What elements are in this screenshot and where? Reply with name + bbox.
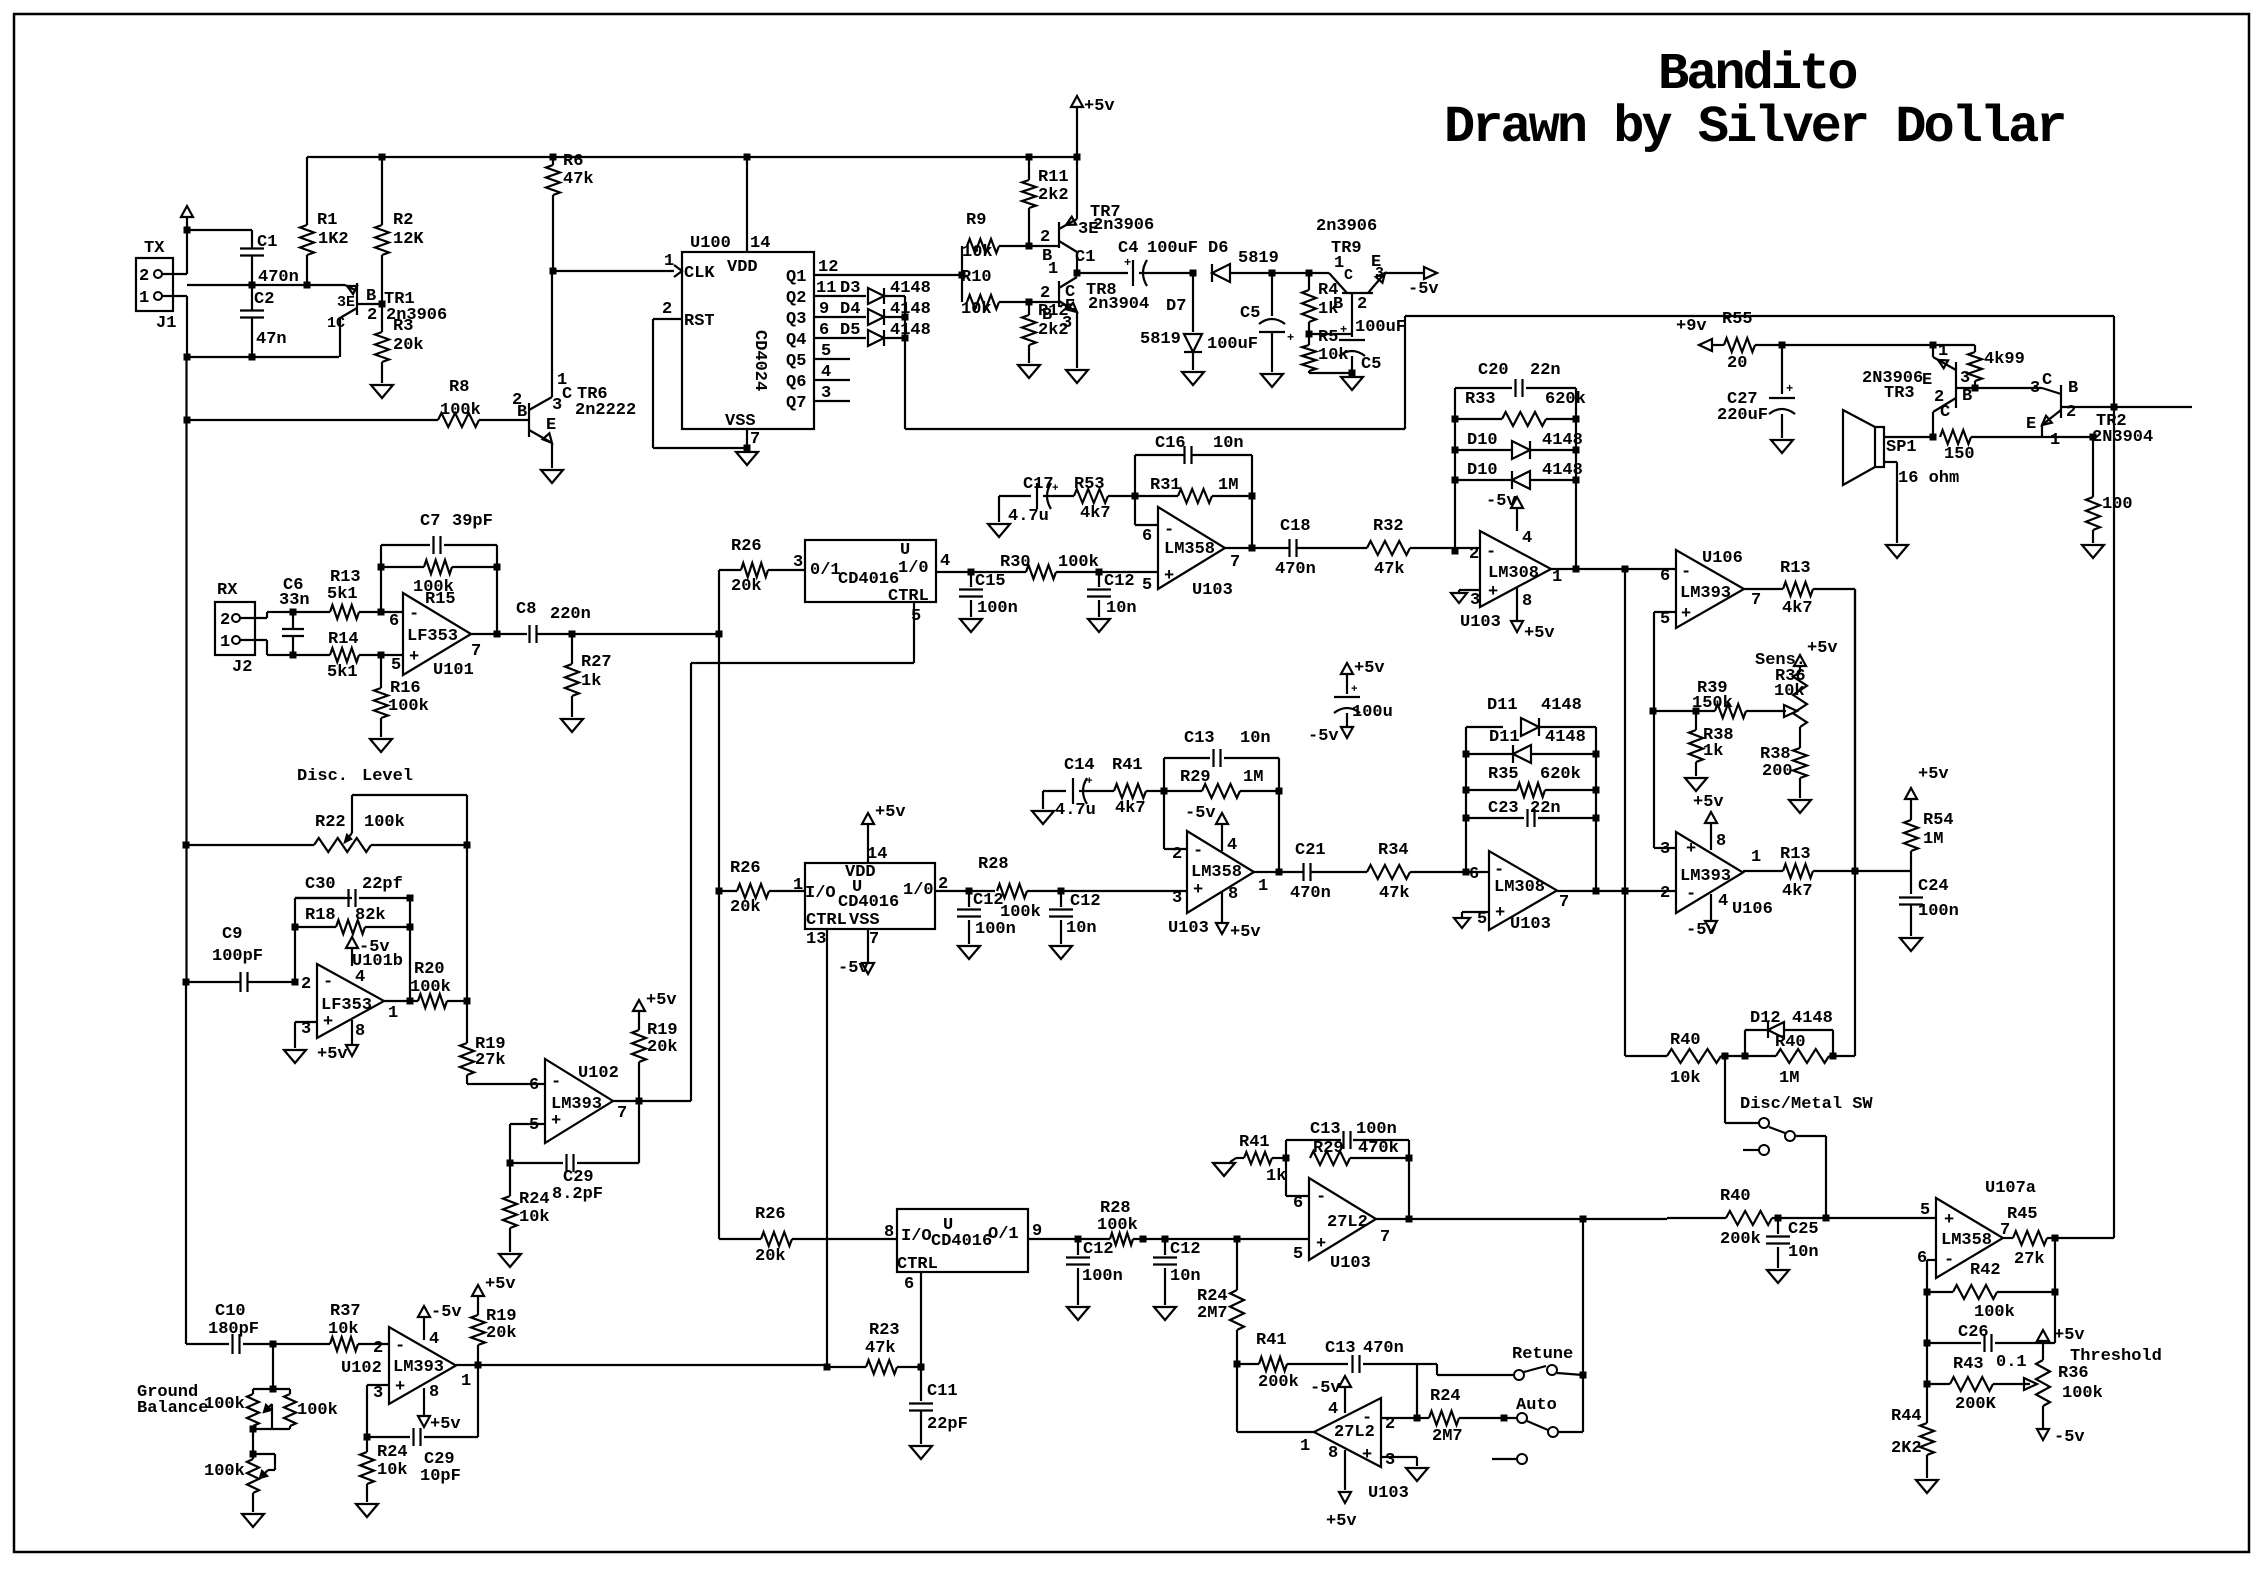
svg-text:200k: 200k — [1720, 1230, 1761, 1249]
svg-text:1: 1 — [1300, 1437, 1310, 1456]
svg-text:D7: D7 — [1166, 297, 1186, 316]
svg-text:-5v: -5v — [1686, 921, 1717, 940]
ground C11 — [910, 1446, 932, 1459]
svg-text:100k: 100k — [388, 697, 429, 716]
resistor R35 620k — [1466, 765, 1596, 797]
svg-text:U103: U103 — [1510, 915, 1551, 934]
resistor R44 2K2 — [1891, 1407, 1934, 1478]
svg-text:B: B — [1962, 387, 1972, 406]
svg-text:LM393: LM393 — [1680, 867, 1731, 886]
power +5v CD4016b — [862, 803, 906, 863]
svg-text:5819: 5819 — [1140, 330, 1181, 349]
svg-text:C13: C13 — [1310, 1120, 1341, 1139]
svg-text:D6: D6 — [1208, 239, 1228, 258]
svg-text:J2: J2 — [232, 658, 252, 677]
svg-text:8: 8 — [1228, 885, 1238, 904]
svg-text:6: 6 — [1142, 527, 1152, 546]
svg-text:+: + — [1052, 483, 1059, 495]
svg-text:1K2: 1K2 — [318, 230, 349, 249]
wire long run y=429 — [905, 316, 2114, 429]
junction gb low — [250, 1451, 257, 1458]
svg-text:E: E — [1922, 371, 1932, 390]
junction rail +5v stem — [1074, 154, 1081, 161]
svg-text:4k7: 4k7 — [1115, 799, 1146, 818]
svg-text:10n: 10n — [1788, 1243, 1819, 1262]
svg-text:C14: C14 — [1064, 756, 1095, 775]
speaker SP1 — [1843, 410, 1959, 488]
svg-text:-: - — [1193, 842, 1203, 861]
svg-text:620k: 620k — [1540, 765, 1581, 784]
diode D10 a — [1455, 431, 1583, 459]
resistor R19 20k b — [471, 1275, 517, 1365]
resistor R19 27k — [460, 1035, 545, 1084]
svg-text:Q1: Q1 — [786, 268, 806, 287]
op-amp U107a LM358 — [1917, 1179, 2036, 1278]
svg-text:22pF: 22pF — [927, 1415, 968, 1434]
svg-text:13: 13 — [806, 930, 826, 949]
svg-text:7: 7 — [471, 642, 481, 661]
svg-text:Q2: Q2 — [786, 289, 806, 308]
wire R5 bottom — [1309, 372, 1352, 374]
op-amp U103 27L2 second — [1300, 1398, 1409, 1503]
potentiometer ground balance 100k b — [204, 1454, 275, 1512]
svg-text:16 ohm: 16 ohm — [1898, 469, 1959, 488]
svg-text:R30: R30 — [1000, 553, 1031, 572]
svg-text:+5v: +5v — [1524, 624, 1555, 643]
wire +5v top rail — [307, 156, 1077, 158]
resistor R29 470k — [1310, 1139, 1409, 1165]
junction retune bus — [1580, 1216, 1587, 1223]
resistor R10 — [961, 268, 1059, 319]
svg-text:-5v: -5v — [431, 1303, 462, 1322]
svg-text:Q6: Q6 — [786, 373, 806, 392]
capacitor C9 100pF — [186, 925, 295, 992]
junction D10a left — [1452, 447, 1459, 454]
svg-text:B: B — [2068, 379, 2078, 398]
wire R9R10 left bus — [961, 246, 963, 302]
junction gb top — [270, 1386, 277, 1393]
junction R20 right — [464, 998, 471, 1005]
wire +9v R55 row — [1712, 344, 1724, 346]
svg-text:C30: C30 — [305, 875, 336, 894]
junction U101 out — [494, 631, 501, 638]
wire C16 left bus — [1135, 455, 1158, 525]
svg-text:+5v: +5v — [1084, 97, 1115, 116]
wire R26 bus vertical — [718, 570, 720, 1239]
svg-text:R40: R40 — [1775, 1033, 1806, 1052]
capacitor C8 220n — [516, 600, 591, 643]
ground C17 — [988, 524, 1010, 537]
resistor 150 — [1940, 430, 2093, 464]
svg-text:R2: R2 — [393, 211, 413, 230]
svg-text:CD4016: CD4016 — [931, 1232, 992, 1251]
svg-text:R26: R26 — [755, 1205, 786, 1224]
svg-text:620k: 620k — [1545, 390, 1586, 409]
capacitor C24 100n — [1899, 877, 1959, 936]
svg-text:10n: 10n — [1240, 729, 1271, 748]
ground R44 — [1916, 1480, 1938, 1493]
potentiometer R36 10k — [1755, 639, 1838, 748]
resistor R13 4k7 b — [1743, 845, 1911, 901]
svg-text:47n: 47n — [256, 330, 287, 349]
junction R28 right — [1140, 1236, 1147, 1243]
svg-text:LF353: LF353 — [407, 627, 458, 646]
resistor R3 — [375, 304, 424, 383]
wire CD4016b out row — [935, 890, 995, 892]
svg-text:7: 7 — [1380, 1228, 1390, 1247]
junction R29 right fb — [1406, 1155, 1413, 1162]
svg-text:-: - — [323, 973, 333, 992]
svg-text:TX: TX — [144, 239, 165, 258]
svg-text:4: 4 — [1227, 836, 1237, 855]
junction R11 bottom — [1026, 243, 1033, 250]
wire C13 right bus — [1278, 758, 1280, 872]
resistor R34 47k — [1367, 841, 1489, 903]
svg-text:CLK: CLK — [684, 264, 715, 283]
svg-text:33n: 33n — [279, 591, 310, 610]
svg-text:R43: R43 — [1953, 1355, 1984, 1374]
diode D11 b — [1466, 728, 1596, 763]
svg-text:2M7: 2M7 — [1197, 1304, 1228, 1323]
svg-text:U102: U102 — [578, 1064, 619, 1083]
power -5v U101b — [346, 937, 390, 987]
capacitor C27 220uF — [1717, 345, 1795, 438]
resistor R1 — [300, 157, 349, 285]
svg-text:R26: R26 — [730, 859, 761, 878]
svg-text:3: 3 — [1470, 591, 1480, 610]
svg-text:7: 7 — [2000, 1221, 2010, 1240]
svg-text:20k: 20k — [731, 577, 762, 596]
op-amp U106 LM393 second — [1660, 832, 1773, 919]
junction R29 right — [1276, 788, 1283, 795]
junction D10b right — [1573, 477, 1580, 484]
svg-text:470n: 470n — [1363, 1339, 1404, 1358]
junction C8 out bus — [569, 631, 576, 638]
svg-text:1: 1 — [388, 1004, 398, 1023]
svg-text:2N3904: 2N3904 — [2092, 428, 2153, 447]
junction R33 right — [1573, 416, 1580, 423]
svg-text:R32: R32 — [1373, 517, 1404, 536]
wire U101 out — [471, 633, 527, 635]
svg-text:8.2pF: 8.2pF — [552, 1185, 603, 1204]
svg-text:U103: U103 — [1330, 1254, 1371, 1273]
svg-text:B: B — [517, 403, 527, 422]
wire R45 to bus — [2113, 1237, 2115, 1239]
junction D10b left — [1452, 477, 1459, 484]
junction R26 bus2 — [716, 888, 723, 895]
junction R18 left — [292, 924, 299, 931]
svg-text:100n: 100n — [1082, 1267, 1123, 1286]
capacitor C23 22n — [1466, 799, 1596, 827]
wire C30 left bus — [294, 898, 296, 927]
svg-text:R24: R24 — [519, 1190, 550, 1209]
svg-text:Retune: Retune — [1512, 1345, 1573, 1364]
svg-text:+: + — [1351, 684, 1358, 696]
svg-text:20k: 20k — [393, 336, 424, 355]
op-amp U103 LM358 first — [1142, 507, 1240, 600]
svg-text:CTRL: CTRL — [897, 1255, 938, 1274]
op-amp U103 LM308 first — [1460, 531, 1562, 632]
ground R12 — [1018, 365, 1040, 378]
wire R39 to pot R36 — [1746, 705, 1797, 717]
svg-text:-: - — [1681, 563, 1691, 582]
ground U101b pin3 — [284, 1022, 317, 1063]
svg-text:470n: 470n — [1290, 884, 1331, 903]
svg-text:R44: R44 — [1891, 1407, 1922, 1426]
capacitor C25 10n — [1766, 1218, 1819, 1268]
svg-text:150: 150 — [1944, 445, 1975, 464]
svg-text:82k: 82k — [355, 906, 386, 925]
svg-text:1k: 1k — [1266, 1167, 1286, 1186]
svg-text:LM308: LM308 — [1488, 564, 1539, 583]
diode D3 4148 — [814, 279, 931, 304]
junction auto node — [1501, 1415, 1508, 1422]
wire U106b pin3 — [1654, 709, 1676, 848]
svg-text:U: U — [900, 541, 910, 560]
resistor R39 150k — [1653, 679, 1746, 718]
connector J1 TX — [136, 239, 176, 333]
junction R13b bus — [1852, 868, 1859, 875]
svg-text:1: 1 — [664, 252, 674, 271]
transistor TR1 2n3906 — [327, 283, 447, 357]
svg-text:J1: J1 — [156, 314, 176, 333]
svg-text:1: 1 — [793, 876, 803, 895]
svg-text:+5v: +5v — [430, 1415, 461, 1434]
svg-text:R41: R41 — [1256, 1331, 1287, 1350]
svg-text:C13: C13 — [1325, 1339, 1356, 1358]
svg-text:100k: 100k — [1000, 903, 1041, 922]
junction LM358a output — [1249, 545, 1256, 552]
svg-text:4148: 4148 — [890, 321, 931, 340]
wire LM308a out to U106a — [1551, 568, 1676, 570]
wire D11 left bus — [1465, 727, 1467, 872]
svg-text:220uF: 220uF — [1717, 406, 1768, 425]
junction R42 right — [2052, 1289, 2059, 1296]
junction U102a out — [636, 1098, 643, 1105]
svg-text:6: 6 — [1293, 1194, 1303, 1213]
svg-text:8: 8 — [1328, 1444, 1338, 1463]
svg-text:100k: 100k — [297, 1401, 338, 1420]
svg-text:100k: 100k — [204, 1395, 245, 1414]
ground C25 — [1767, 1270, 1789, 1283]
wire C30 row — [295, 897, 352, 899]
junction Q1 vertical — [959, 272, 966, 279]
svg-text:100uF: 100uF — [1207, 335, 1258, 354]
svg-text:C15: C15 — [975, 572, 1006, 591]
svg-text:-5v: -5v — [838, 959, 869, 978]
svg-text:-5v: -5v — [359, 938, 390, 957]
ground R27 — [561, 719, 583, 732]
svg-text:+: + — [1681, 605, 1691, 624]
wire R8 row — [187, 419, 529, 421]
junction R42 left — [1924, 1289, 1931, 1296]
junction R35 left — [1463, 787, 1470, 794]
svg-text:CD4016: CD4016 — [838, 893, 899, 912]
junction R41 200k left — [1234, 1361, 1241, 1368]
svg-text:C20: C20 — [1478, 361, 1509, 380]
wire R18 left bus — [294, 927, 296, 982]
svg-text:-5v: -5v — [1308, 727, 1339, 746]
wire 27L2b pin2 — [1381, 1417, 1417, 1419]
svg-text:+9v: +9v — [1676, 317, 1707, 336]
svg-text:I/O: I/O — [805, 884, 836, 903]
svg-text:U107a: U107a — [1985, 1179, 2036, 1198]
wire disc level right bus — [466, 845, 468, 1043]
svg-text:C7: C7 — [420, 512, 440, 531]
op-amp U103 27L2 first — [1293, 1178, 1390, 1273]
svg-text:U103: U103 — [1460, 613, 1501, 632]
svg-text:D11: D11 — [1487, 696, 1518, 715]
junction R24 2M7 top — [1234, 1236, 1241, 1243]
wire D10 block left bus — [1454, 388, 1456, 551]
op-amp U102 LM393 second — [341, 1327, 471, 1404]
svg-text:10n: 10n — [1170, 1267, 1201, 1286]
svg-text:R33: R33 — [1465, 390, 1496, 409]
wire collector to C4 — [1077, 272, 1128, 274]
svg-text:100n: 100n — [977, 599, 1018, 618]
svg-text:5: 5 — [391, 656, 401, 675]
svg-text:470n: 470n — [1275, 560, 1316, 579]
junction CD4016a out — [968, 569, 975, 576]
svg-text:4148: 4148 — [1541, 696, 1582, 715]
svg-text:D11: D11 — [1489, 728, 1520, 747]
svg-text:Q5: Q5 — [786, 352, 806, 371]
svg-text:R37: R37 — [330, 1302, 361, 1321]
junction R53 R31 — [1132, 493, 1139, 500]
svg-text:U100: U100 — [690, 234, 731, 253]
ground R24b — [356, 1504, 378, 1517]
svg-text:VSS: VSS — [849, 911, 880, 930]
power +9v arrow — [1676, 317, 1712, 351]
svg-text:20k: 20k — [647, 1038, 678, 1057]
svg-text:4148: 4148 — [890, 300, 931, 319]
wire R42 right bus — [2054, 1238, 2056, 1343]
ground C14 — [1032, 811, 1054, 824]
svg-text:+: + — [1287, 331, 1294, 345]
wire base node — [1309, 333, 1352, 335]
svg-text:+: + — [409, 648, 419, 667]
junction R29 left — [1161, 788, 1168, 795]
svg-text:-: - — [551, 1073, 561, 1092]
junction C5b bottom — [1349, 370, 1356, 377]
svg-text:+5v: +5v — [875, 803, 906, 822]
junction C6 top — [290, 609, 297, 616]
junction R23 left — [824, 1364, 831, 1371]
svg-text:+5v: +5v — [1230, 923, 1261, 942]
svg-text:4: 4 — [355, 968, 365, 987]
svg-text:C: C — [1344, 267, 1353, 284]
svg-text:10n: 10n — [1106, 599, 1137, 618]
svg-text:20: 20 — [1727, 354, 1747, 373]
wire CD4016a out — [936, 571, 1026, 573]
resistor R24 10k b — [360, 1437, 408, 1502]
svg-text:100pF: 100pF — [212, 947, 263, 966]
junction R1 bottom — [304, 282, 311, 289]
capacitor C29 8.2pF — [510, 1101, 639, 1204]
svg-text:R18: R18 — [305, 906, 336, 925]
svg-text:C16: C16 — [1155, 434, 1186, 453]
svg-text:C: C — [562, 385, 572, 404]
svg-text:B: B — [1042, 306, 1052, 325]
ground C12d — [1067, 1307, 1089, 1320]
svg-text:4k7: 4k7 — [1080, 504, 1111, 523]
svg-text:10k: 10k — [962, 243, 993, 262]
svg-text:2: 2 — [1357, 295, 1367, 314]
svg-text:1M: 1M — [1218, 476, 1238, 495]
svg-text:20k: 20k — [755, 1247, 786, 1266]
junction diode bus D5 — [902, 335, 909, 342]
capacitor C2 — [240, 290, 287, 357]
power +5v U106b — [1693, 793, 1726, 851]
junction R4 top — [1306, 270, 1313, 277]
svg-text:R45: R45 — [2007, 1205, 2038, 1224]
capacitor C1 — [240, 233, 299, 287]
svg-text:100k: 100k — [364, 813, 405, 832]
resistor R23 47k — [827, 1321, 921, 1374]
ground C12a — [1088, 619, 1110, 632]
svg-text:R15: R15 — [425, 590, 456, 609]
ground D7 — [1182, 372, 1204, 385]
svg-text:Disc/Metal SW: Disc/Metal SW — [1740, 1095, 1873, 1114]
title text — [1444, 45, 2065, 157]
svg-text:U102: U102 — [341, 1359, 382, 1378]
svg-text:LM308: LM308 — [1494, 878, 1545, 897]
diode D5 4148 — [814, 321, 931, 346]
diode D11 a — [1466, 696, 1596, 736]
svg-text:1: 1 — [461, 1372, 471, 1391]
diode D10 b — [1455, 461, 1583, 489]
svg-text:LM358: LM358 — [1164, 540, 1215, 559]
svg-text:LM358: LM358 — [1191, 863, 1242, 882]
ground R38 1k — [1685, 778, 1707, 791]
ground C15 — [960, 619, 982, 632]
ground C12b — [958, 946, 980, 959]
junction TR3 emitter node — [1930, 342, 1937, 349]
svg-text:100n: 100n — [1356, 1120, 1397, 1139]
svg-text:7: 7 — [1230, 553, 1240, 572]
svg-text:+5v: +5v — [646, 991, 677, 1010]
junction R39 left — [1650, 708, 1657, 715]
svg-text:U101: U101 — [433, 661, 474, 680]
svg-text:RST: RST — [684, 312, 715, 331]
svg-text:+5v: +5v — [1693, 793, 1724, 812]
svg-text:R5: R5 — [1318, 328, 1338, 347]
svg-text:-5v: -5v — [1408, 280, 1439, 299]
wire RX pin1 — [240, 640, 283, 655]
svg-text:4.7u: 4.7u — [1055, 801, 1096, 820]
junction CLK node — [550, 268, 557, 275]
pin7 -5v CD4016b — [838, 929, 874, 978]
connector J2 RX — [215, 581, 255, 677]
svg-text:D12: D12 — [1750, 1009, 1781, 1028]
svg-text:0.1: 0.1 — [1996, 1353, 2027, 1372]
ground TR9 base network — [1341, 377, 1363, 390]
svg-text:D10: D10 — [1467, 461, 1498, 480]
svg-text:3: 3 — [1062, 314, 1072, 333]
junction emitter 150 node — [2090, 434, 2097, 441]
svg-text:+5v: +5v — [2054, 1326, 2085, 1345]
svg-text:+: + — [1124, 256, 1131, 270]
resistor R15 100k — [381, 560, 497, 609]
potentiometer R22 100k — [186, 813, 467, 852]
capacitor C12 100n b — [957, 891, 1016, 944]
svg-text:O/1: O/1 — [988, 1225, 1019, 1244]
resistor R37 10k — [273, 1302, 389, 1351]
svg-text:U106: U106 — [1702, 549, 1743, 568]
svg-text:1/0: 1/0 — [898, 559, 929, 578]
svg-text:8: 8 — [429, 1383, 439, 1402]
svg-text:1M: 1M — [1923, 830, 1943, 849]
